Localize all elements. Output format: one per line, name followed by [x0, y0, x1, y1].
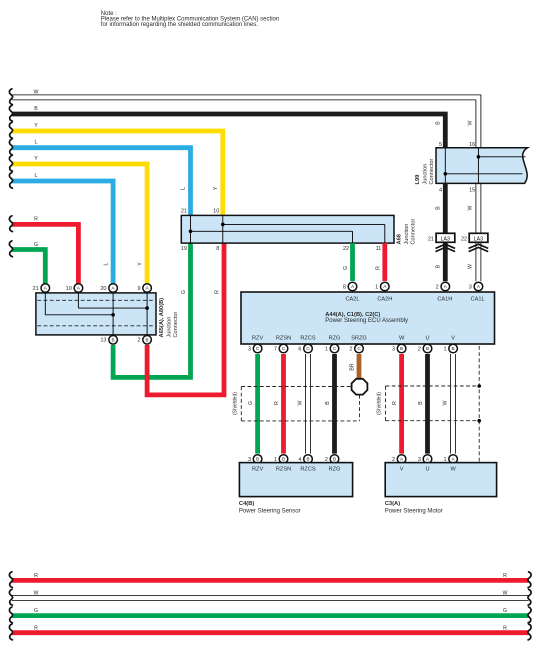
svg-text:R: R [214, 290, 220, 294]
shield ground octagon [352, 379, 368, 395]
svg-text:G: G [34, 608, 38, 614]
svg-text:B: B [325, 401, 331, 405]
svg-text:2: 2 [418, 346, 421, 352]
junction dot motor shield bottom [477, 419, 481, 423]
svg-text:U: U [425, 335, 429, 341]
svg-text:A65(A), A80(B): A65(A), A80(B) [159, 298, 165, 338]
wire W (CAN high trunk) [9, 89, 480, 148]
terminal 10 A [66, 284, 83, 293]
svg-text:B: B [426, 346, 429, 351]
motor terminal 3 A U [418, 455, 432, 464]
ECU terminal 1 A CA2H [375, 282, 389, 291]
svg-text:Junction: Junction [422, 164, 428, 185]
wire B RZG [325, 354, 335, 454]
svg-text:22: 22 [461, 236, 467, 242]
shield connector 22 LA3 [461, 233, 488, 242]
svg-text:W: W [450, 467, 456, 473]
wire R bottom trunk 2 [9, 624, 531, 640]
svg-text:W: W [298, 400, 304, 405]
svg-text:2: 2 [436, 284, 439, 290]
svg-text:3: 3 [392, 346, 395, 352]
svg-text:CA2H: CA2H [377, 296, 392, 302]
wire B from L99 pin 4 to ECU CA1H [436, 183, 446, 281]
junction dot motor shield top [477, 384, 481, 388]
svg-text:1: 1 [325, 346, 328, 352]
label A65(A), A80(B) Junction Connector [159, 298, 179, 338]
motor terminal 1 A W [443, 455, 457, 464]
svg-text:Power Steering Motor: Power Steering Motor [385, 508, 443, 514]
motor terminal 2 A V [392, 455, 406, 464]
svg-text:10: 10 [66, 286, 72, 292]
label L99 Junction Connector [415, 159, 435, 185]
junction dot A65 bus Y/R [145, 306, 149, 310]
svg-text:8: 8 [216, 246, 219, 252]
svg-text:LA3: LA3 [441, 236, 450, 242]
svg-text:21: 21 [428, 236, 434, 242]
svg-text:RZG: RZG [329, 467, 341, 473]
wire Y to A65/A80 pin 9 [9, 155, 147, 283]
svg-text:R: R [503, 625, 507, 631]
svg-text:RZSN: RZSN [276, 335, 291, 341]
svg-text:V: V [451, 335, 455, 341]
break arrows under 22 LA3 [469, 244, 489, 248]
svg-text:13: 13 [100, 338, 106, 344]
svg-text:15: 15 [469, 188, 475, 194]
svg-text:U: U [425, 467, 429, 473]
svg-text:L99: L99 [415, 175, 421, 185]
wire R from A68 pin 11 to ECU CA2H [375, 243, 385, 281]
svg-text:19: 19 [181, 246, 187, 252]
junction dot L99 W [477, 155, 481, 159]
svg-text:B: B [436, 121, 442, 125]
wire Y to A68 pin 10 [9, 122, 222, 215]
label C4(B) Power Steering Sensor [239, 501, 301, 515]
junction connector A65(A), A80(B) [36, 293, 156, 335]
sensor terminal 4 B RZCS [298, 455, 312, 464]
svg-text:2: 2 [137, 338, 140, 344]
svg-text:22: 22 [343, 246, 349, 252]
wire W bottom trunk [9, 589, 531, 605]
ECU terminal 2 C SRZG [349, 344, 363, 353]
svg-text:16: 16 [469, 142, 475, 148]
svg-text:9: 9 [137, 286, 140, 292]
svg-text:R: R [392, 401, 398, 405]
svg-text:B: B [282, 457, 285, 462]
ECU terminal 6 C RZCS [298, 344, 312, 353]
junction dot A65 bus L/G [111, 313, 115, 317]
svg-text:W: W [443, 400, 449, 405]
junction dot A68 bus L/G [189, 230, 193, 234]
svg-text:CA2L: CA2L [346, 296, 360, 302]
svg-text:R: R [375, 266, 381, 270]
svg-text:8: 8 [343, 284, 346, 290]
svg-text:Power Steering Sensor: Power Steering Sensor [239, 508, 301, 514]
svg-text:7: 7 [274, 346, 277, 352]
svg-text:R: R [503, 573, 507, 579]
svg-text:B: B [436, 264, 442, 268]
svg-text:RZSN: RZSN [276, 467, 291, 473]
svg-text:6: 6 [298, 346, 301, 352]
svg-text:1: 1 [375, 284, 378, 290]
wire B motor U [418, 354, 428, 454]
svg-text:A68: A68 [397, 234, 403, 244]
sensor terminal 3 B RZV [248, 455, 262, 464]
ECU terminal 3 C RZV [248, 344, 262, 353]
svg-text:W: W [399, 335, 405, 341]
wire R from A65 pin 2 to A68 pin 8 [147, 243, 224, 395]
wire B (CAN low trunk) [9, 105, 445, 147]
wire R to A65/A80 pin 10 [9, 216, 78, 284]
wire G bottom trunk [9, 607, 531, 623]
ECU terminal 8 A CA2L [343, 282, 357, 291]
wire G from A68 pin 22 to ECU CA2L [343, 243, 353, 281]
wire W from L99 pin 15 to ECU CA1L [468, 183, 481, 281]
svg-text:4: 4 [439, 188, 442, 194]
svg-text:R: R [34, 573, 38, 579]
svg-text:10: 10 [213, 209, 219, 215]
svg-text:BR: BR [350, 363, 356, 370]
motor shield (dashed) [377, 346, 480, 462]
sensor shield (dashed) [233, 387, 360, 421]
wire W motor W [443, 354, 456, 454]
power steering sensor C4(B) [239, 463, 352, 497]
svg-text:5: 5 [439, 142, 442, 148]
svg-text:3: 3 [469, 284, 472, 290]
svg-text:1: 1 [443, 346, 446, 352]
svg-text:3: 3 [248, 346, 251, 352]
wire W RZCS [298, 354, 311, 454]
wire G from A65 pin 13 to A68 pin 19 [113, 243, 190, 377]
svg-text:Y: Y [213, 186, 219, 190]
wire R RZSN [274, 354, 284, 454]
svg-text:V: V [400, 467, 404, 473]
svg-text:Power Steering ECU Assembly: Power Steering ECU Assembly [325, 318, 408, 324]
wire L to A65/A80 pin 20 [9, 172, 113, 283]
wire L to A68 pin 21 [9, 139, 190, 215]
wire G to A65/A80 pin 21 [9, 241, 45, 284]
svg-text:W: W [468, 264, 474, 269]
svg-text:Y: Y [34, 123, 38, 129]
svg-text:W: W [34, 591, 39, 597]
ECU terminal 1 B V [443, 344, 457, 353]
svg-text:CA1L: CA1L [471, 296, 485, 302]
svg-text:L: L [35, 140, 38, 146]
svg-text:R: R [274, 401, 280, 405]
ECU terminal 3 B W [392, 344, 406, 353]
wire R bottom trunk 1 [9, 572, 531, 588]
svg-text:11: 11 [376, 246, 382, 252]
svg-text:G: G [248, 401, 254, 405]
note text [101, 11, 279, 28]
svg-text:R: R [34, 217, 38, 223]
junction dot A68 bus Y/R [221, 223, 225, 227]
svg-text:SRZG: SRZG [351, 335, 367, 341]
terminal 20 A [100, 284, 117, 293]
svg-text:B: B [436, 206, 442, 210]
junction connector L99 [436, 148, 528, 184]
svg-text:W: W [468, 120, 474, 125]
svg-text:L: L [103, 262, 109, 265]
terminal 9 A [137, 284, 151, 293]
svg-text:G: G [503, 608, 507, 614]
svg-text:Y: Y [137, 262, 143, 266]
label C3(A) Power Steering Motor [385, 501, 443, 515]
power steering motor C3(A) [385, 463, 496, 497]
svg-text:21: 21 [33, 286, 39, 292]
svg-text:W: W [468, 205, 474, 210]
svg-text:2: 2 [349, 346, 352, 352]
terminal 13 B [100, 336, 117, 345]
svg-text:Junction: Junction [404, 224, 410, 245]
power steering ECU assembly A44(A), C1(B), C2(C) [241, 292, 495, 344]
svg-text:R: R [34, 625, 38, 631]
svg-text:RZV: RZV [252, 335, 263, 341]
svg-text:B: B [146, 338, 149, 343]
svg-text:L: L [35, 173, 38, 179]
svg-text:B: B [306, 457, 309, 462]
svg-text:Connector: Connector [429, 159, 435, 185]
svg-text:21: 21 [181, 209, 187, 215]
ECU terminal 1 C RZG [325, 344, 339, 353]
terminal 2 B [137, 336, 151, 345]
svg-text:C3(A): C3(A) [385, 501, 401, 507]
svg-text:G: G [34, 242, 38, 248]
break arrows under 21 LA3 [436, 244, 456, 248]
svg-text:Y: Y [34, 156, 38, 162]
junction connector A68 [181, 215, 394, 243]
svg-text:B: B [256, 457, 259, 462]
wire BR shield drain SRZG [350, 354, 360, 378]
svg-text:B: B [112, 338, 115, 343]
svg-text:G: G [181, 290, 187, 294]
svg-text:C4(B): C4(B) [239, 501, 255, 507]
svg-text:20: 20 [100, 286, 106, 292]
wire R motor V [392, 354, 402, 454]
svg-text:LA3: LA3 [474, 236, 483, 242]
shield connector 21 LA3 [428, 233, 455, 242]
svg-text:W: W [34, 90, 39, 96]
ECU terminal 7 C RZSN [274, 344, 288, 353]
label A68 Junction Connector [397, 219, 417, 245]
terminal 21 A [33, 284, 50, 293]
svg-text:Connector: Connector [173, 312, 179, 338]
svg-text:L: L [181, 187, 187, 190]
svg-text:B: B [400, 346, 403, 351]
ECU terminal 2 A CA1H [436, 282, 450, 291]
svg-text:(Shielded): (Shielded) [377, 392, 383, 415]
svg-text:for information regarding the: for information regarding the shielded c… [101, 22, 258, 28]
svg-text:B: B [34, 106, 38, 112]
svg-text:B: B [452, 346, 455, 351]
svg-text:W: W [503, 591, 508, 597]
svg-text:B: B [333, 457, 336, 462]
svg-text:Junction: Junction [167, 317, 173, 338]
svg-text:(Shielded): (Shielded) [233, 392, 239, 415]
svg-text:RZV: RZV [252, 467, 263, 473]
sensor terminal 1 B RZSN [274, 455, 288, 464]
svg-text:CA1H: CA1H [437, 296, 452, 302]
ECU terminal 2 B U [418, 344, 432, 353]
sensor terminal 2 B RZG [325, 455, 339, 464]
svg-text:RZCS: RZCS [300, 467, 315, 473]
wire G RZV [248, 354, 258, 454]
svg-text:Connector: Connector [410, 219, 416, 245]
junction dot L99 B [444, 172, 448, 176]
ECU terminal 3 A CA1L [469, 282, 483, 291]
svg-text:A44(A), C1(B), C2(C): A44(A), C1(B), C2(C) [325, 312, 380, 318]
svg-text:B: B [418, 401, 424, 405]
svg-text:G: G [343, 266, 349, 270]
svg-text:RZCS: RZCS [300, 335, 315, 341]
svg-text:RZG: RZG [329, 335, 341, 341]
